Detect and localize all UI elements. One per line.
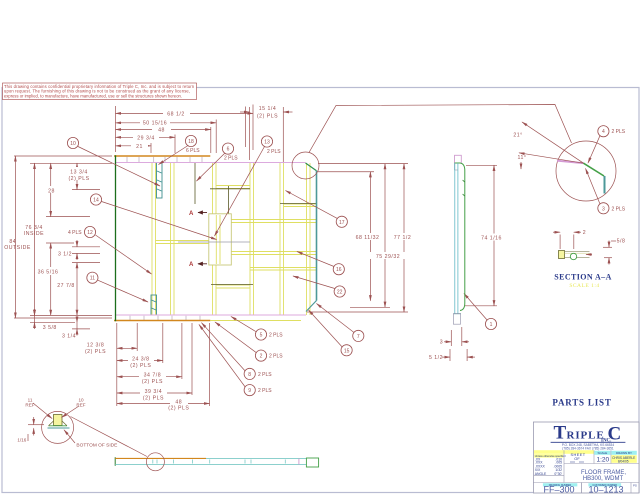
- svg-text:3 1/2: 3 1/2: [58, 251, 72, 257]
- svg-text:13 3/4: 13 3/4: [70, 170, 87, 176]
- svg-text:2 PLS: 2 PLS: [612, 206, 626, 212]
- svg-text:29 3/4: 29 3/4: [137, 135, 154, 141]
- svg-text:2 PLS: 2 PLS: [267, 149, 281, 155]
- svg-text:2 PLS: 2 PLS: [224, 156, 238, 162]
- svg-text:9: 9: [248, 388, 251, 394]
- svg-text:68 11/32: 68 11/32: [356, 235, 380, 241]
- svg-text:2 PLS: 2 PLS: [269, 354, 283, 360]
- svg-text:ANGLE: ANGLE: [535, 472, 547, 476]
- svg-text:48: 48: [158, 128, 165, 134]
- svg-text:2: 2: [260, 354, 263, 360]
- svg-text:5: 5: [260, 333, 263, 339]
- svg-text:REF: REF: [25, 403, 34, 408]
- svg-text:50 15/16: 50 15/16: [143, 121, 167, 127]
- svg-text:(2) PLS: (2) PLS: [257, 114, 278, 120]
- svg-text:2 PLS: 2 PLS: [612, 129, 626, 135]
- svg-text:3 5/8: 3 5/8: [43, 325, 57, 331]
- svg-text:27 7/8: 27 7/8: [57, 283, 74, 289]
- svg-text:DRAWN BY: DRAWN BY: [616, 451, 632, 455]
- svg-text:11: 11: [90, 276, 95, 282]
- svg-text:74 1/16: 74 1/16: [481, 236, 502, 242]
- svg-text:68 1/2: 68 1/2: [167, 111, 184, 117]
- svg-text:4: 4: [602, 129, 605, 135]
- svg-text:express or implied, to manufac: express or implied, to manufacture, have…: [4, 93, 182, 98]
- svg-text:39 3/4: 39 3/4: [145, 389, 162, 395]
- svg-text:PG: PG: [633, 484, 637, 488]
- svg-text:FF–300: FF–300: [543, 485, 574, 494]
- svg-text:SECTION A–A: SECTION A–A: [554, 273, 612, 282]
- svg-text:18: 18: [188, 139, 194, 145]
- svg-text:15: 15: [344, 348, 350, 354]
- svg-text:2 PLS: 2 PLS: [258, 388, 272, 394]
- svg-text:6 PLS: 6 PLS: [186, 148, 200, 154]
- svg-text:15 1/4: 15 1/4: [259, 106, 276, 112]
- svg-text:77 1/2: 77 1/2: [394, 235, 411, 241]
- svg-text:14: 14: [93, 198, 99, 204]
- svg-text:7: 7: [357, 334, 360, 340]
- svg-text:(2) PLS: (2) PLS: [85, 349, 106, 355]
- svg-text:(785) 284-3674 FAX (785) 28: (785) 284-3674 FAX (785) 284-3651: [562, 446, 614, 450]
- svg-text:(2) PLS: (2) PLS: [168, 406, 189, 412]
- svg-text:(2) PLS: (2) PLS: [68, 176, 89, 182]
- svg-text:SCALE 1:4: SCALE 1:4: [569, 283, 599, 289]
- svg-text:BOTTOM OF SIDE: BOTTOM OF SIDE: [76, 442, 117, 448]
- svg-text:1/16: 1/16: [17, 438, 26, 443]
- svg-text:A: A: [189, 211, 194, 217]
- svg-text:1:20: 1:20: [596, 457, 609, 464]
- svg-text:(2) PLS: (2) PLS: [143, 395, 164, 401]
- svg-text:REF: REF: [76, 403, 85, 408]
- svg-text:21°: 21°: [513, 133, 522, 139]
- svg-text:(2) PLS: (2) PLS: [142, 379, 163, 385]
- svg-text:OUTSIDE: OUTSIDE: [4, 245, 31, 251]
- svg-text:3: 3: [602, 206, 605, 212]
- svg-text:5 1/2: 5 1/2: [429, 355, 443, 361]
- svg-text:12: 12: [87, 230, 93, 236]
- svg-text:10–1213: 10–1213: [588, 485, 623, 494]
- svg-text:HB300, WDMT: HB300, WDMT: [583, 476, 624, 482]
- svg-text:6: 6: [227, 147, 230, 153]
- svg-text:22: 22: [337, 290, 343, 296]
- svg-text:INSIDE: INSIDE: [24, 231, 44, 237]
- svg-text:OF: OF: [574, 456, 580, 461]
- svg-text:21: 21: [136, 144, 143, 150]
- svg-text:16: 16: [336, 267, 342, 273]
- svg-text:1: 1: [490, 322, 493, 328]
- svg-text:3 1/4: 3 1/4: [62, 334, 76, 340]
- svg-text:28: 28: [48, 189, 55, 195]
- svg-text:0°30': 0°30': [554, 472, 562, 476]
- svg-text:3: 3: [440, 339, 443, 345]
- svg-text:75 29/32: 75 29/32: [376, 254, 400, 260]
- svg-text:24 3/8: 24 3/8: [132, 357, 149, 363]
- svg-text:SCALE: SCALE: [597, 451, 607, 455]
- svg-text:8: 8: [248, 372, 251, 378]
- svg-text:RIPLE: RIPLE: [567, 430, 605, 442]
- svg-text:5/8: 5/8: [617, 239, 626, 245]
- svg-text:13: 13: [264, 140, 270, 146]
- svg-text:PARTS LIST: PARTS LIST: [552, 398, 611, 408]
- svg-text:10: 10: [70, 141, 76, 147]
- svg-text:36 5/16: 36 5/16: [38, 270, 59, 276]
- svg-text:T: T: [554, 423, 567, 444]
- svg-text:(2) PLS: (2) PLS: [130, 363, 151, 369]
- svg-text:48: 48: [175, 399, 182, 405]
- svg-text:17: 17: [339, 220, 345, 226]
- svg-text:12 3/8: 12 3/8: [87, 343, 104, 349]
- svg-text:11°: 11°: [518, 155, 527, 161]
- svg-text:2: 2: [583, 230, 586, 236]
- svg-text:2 PLS: 2 PLS: [258, 372, 272, 378]
- svg-text:34 7/8: 34 7/8: [144, 373, 161, 379]
- svg-text:2 PLS: 2 PLS: [269, 333, 283, 339]
- svg-text:4 PLS: 4 PLS: [68, 230, 82, 236]
- svg-text:A: A: [189, 262, 194, 268]
- svg-text:8/04/05: 8/04/05: [618, 459, 629, 463]
